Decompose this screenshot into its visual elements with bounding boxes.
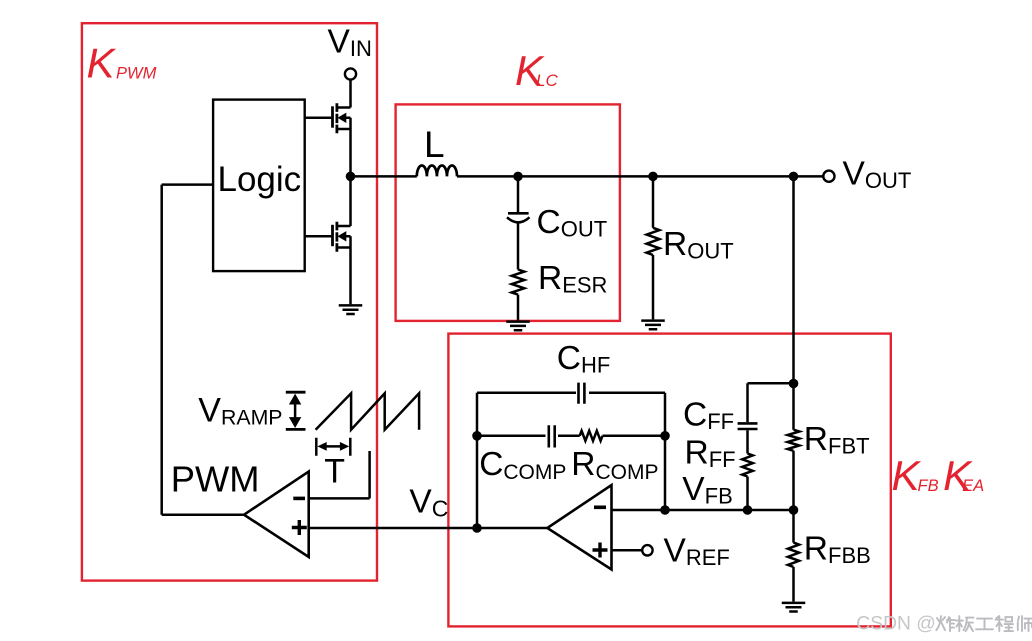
svg-text:PWM: PWM [171,458,260,499]
svg-text:CSDN @: CSDN @ [856,614,936,635]
svg-text:Logic: Logic [218,160,302,199]
svg-text:T: T [324,452,345,490]
svg-text:L: L [424,124,445,165]
